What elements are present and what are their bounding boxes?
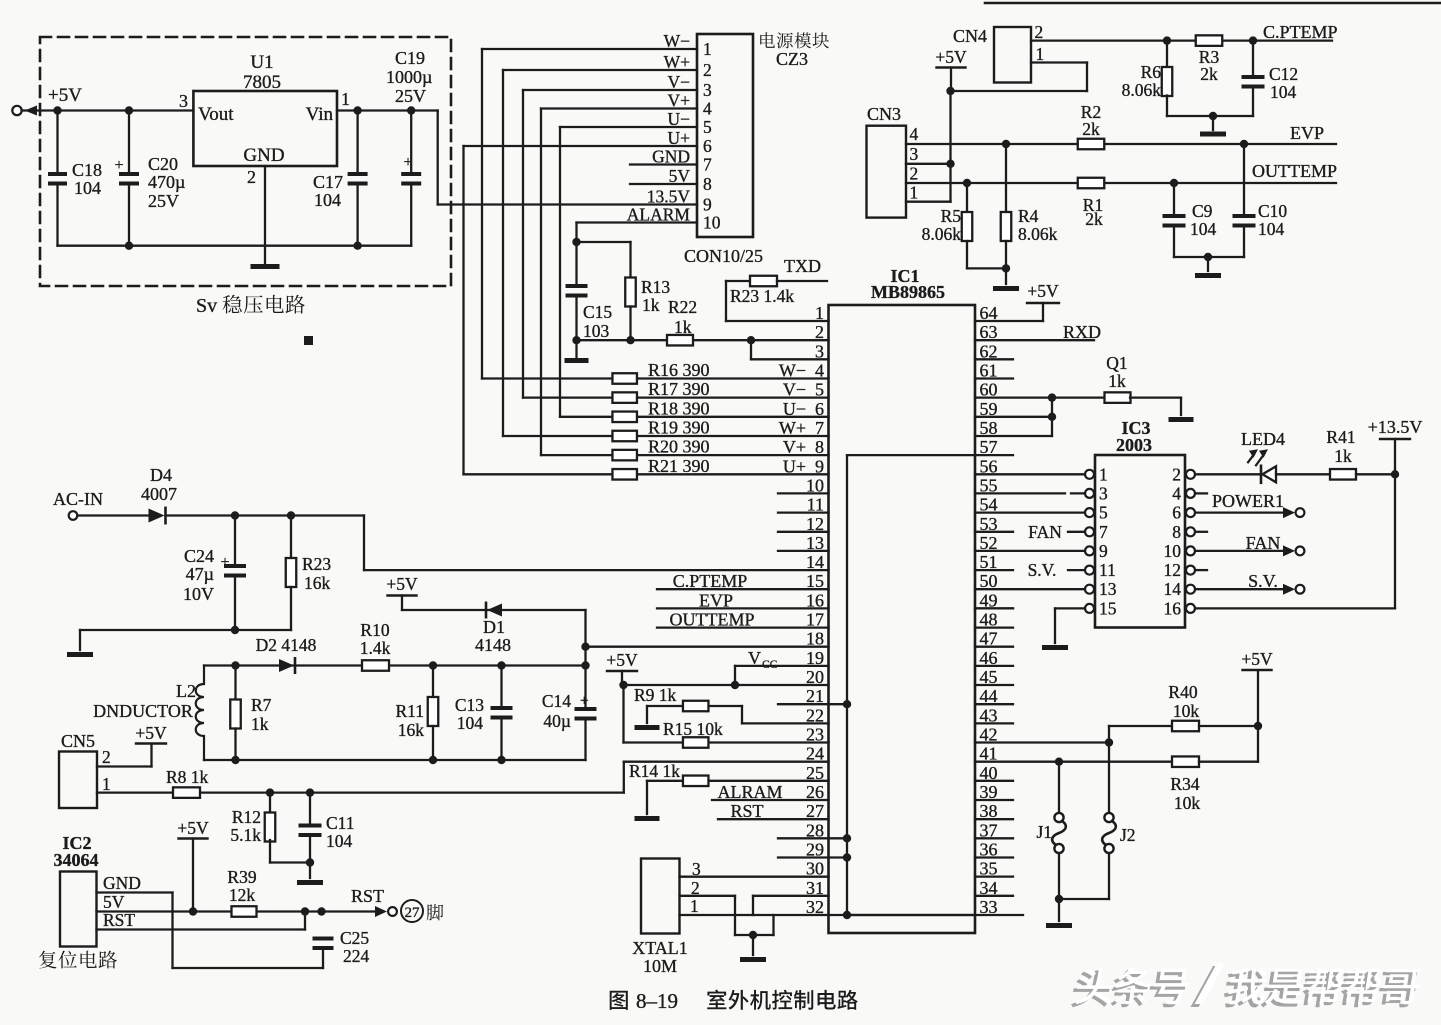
svg-text:5V: 5V [103,892,125,912]
svg-text:12k: 12k [229,885,256,905]
svg-text:R8 1k: R8 1k [166,767,209,787]
svg-text:1: 1 [1036,44,1045,64]
svg-text:5V: 5V [669,166,691,186]
svg-text:5.1k: 5.1k [230,825,261,845]
svg-text:C20: C20 [148,154,178,174]
svg-text:+: + [403,154,412,171]
svg-text:EVP: EVP [699,590,733,610]
svg-text:C24: C24 [184,546,214,566]
svg-text:13: 13 [1099,579,1117,599]
svg-text:S.V.: S.V. [1248,571,1278,591]
svg-text:1: 1 [102,774,111,794]
svg-text:R14 1k: R14 1k [629,761,680,781]
svg-text:R15 10k: R15 10k [663,719,723,739]
svg-text:C.PTEMP: C.PTEMP [1263,22,1338,42]
svg-text:W−: W− [664,31,691,51]
svg-text:R21 390: R21 390 [648,456,710,476]
svg-text:+5V: +5V [386,574,418,594]
svg-text:16: 16 [1164,598,1182,618]
svg-text:5: 5 [703,117,712,137]
svg-text:1: 1 [703,39,712,59]
svg-text:+: + [114,157,123,174]
svg-text:10k: 10k [1173,701,1200,721]
svg-text:RST: RST [103,910,135,930]
svg-text:34064: 34064 [54,850,99,870]
svg-text:4148: 4148 [475,635,511,655]
svg-text:4007: 4007 [141,484,177,504]
svg-text:U1: U1 [250,52,273,73]
svg-text:3: 3 [910,144,919,164]
svg-text:R7: R7 [251,695,272,715]
svg-text:104: 104 [1270,82,1297,102]
svg-text:C9: C9 [1192,201,1213,221]
svg-text:C10: C10 [1258,201,1287,221]
svg-text:V: V [748,648,761,668]
svg-text:3: 3 [1099,483,1108,503]
svg-text:104: 104 [1190,219,1217,239]
svg-text:C14: C14 [542,691,571,711]
svg-text:2k: 2k [1085,209,1103,229]
svg-text:7: 7 [703,155,712,175]
svg-text:TXD: TXD [784,256,821,276]
svg-text:8.06k: 8.06k [1018,224,1058,244]
svg-text:9: 9 [1099,541,1108,561]
svg-text:40µ: 40µ [543,711,571,731]
svg-text:J1: J1 [1036,822,1052,842]
svg-text:D4: D4 [150,465,172,485]
svg-text:10M: 10M [643,956,677,976]
svg-text:S.V.: S.V. [1028,560,1057,580]
svg-text:R10: R10 [360,620,389,640]
svg-text:104: 104 [326,831,353,851]
svg-text:2: 2 [910,164,919,184]
svg-text:3: 3 [179,91,188,111]
svg-text:C19: C19 [395,48,425,68]
svg-text:CN3: CN3 [867,104,901,124]
svg-text:+13.5V: +13.5V [1368,417,1423,437]
svg-text:8: 8 [703,174,712,194]
svg-text:OUTTEMP: OUTTEMP [1252,161,1337,181]
svg-text:GND: GND [652,147,690,167]
svg-text:CN5: CN5 [61,731,95,751]
svg-text:Vout: Vout [198,104,234,125]
svg-text:10: 10 [703,213,721,233]
svg-text:4: 4 [703,99,712,119]
svg-text:AC-IN: AC-IN [53,489,103,509]
svg-text:6: 6 [1172,503,1181,523]
svg-text:104: 104 [1258,219,1285,239]
svg-text:12: 12 [1164,560,1182,580]
svg-text:C25: C25 [340,928,369,948]
svg-text:C15: C15 [583,302,612,322]
svg-text:1k: 1k [642,295,660,315]
svg-text:1: 1 [815,303,824,323]
svg-text:CN4: CN4 [953,26,987,46]
svg-text:3: 3 [815,341,824,361]
svg-text:R34: R34 [1170,774,1199,794]
svg-text:C17: C17 [313,172,343,192]
svg-text:V−: V− [783,380,806,400]
svg-text:U−: U− [783,399,806,419]
svg-text:+5V: +5V [606,650,638,670]
svg-text:RST: RST [351,886,384,906]
svg-text:104: 104 [314,190,341,210]
svg-text:470µ: 470µ [148,172,185,192]
svg-text:1: 1 [690,896,699,916]
svg-text:C.PTEMP: C.PTEMP [673,571,748,591]
svg-text:RST: RST [730,801,763,821]
svg-text:2: 2 [1035,22,1044,42]
svg-text:+5V: +5V [935,47,967,67]
svg-text:10: 10 [1164,541,1182,561]
svg-text:104: 104 [74,178,101,198]
svg-text:2: 2 [1172,464,1181,484]
svg-text:4: 4 [910,124,919,144]
svg-text:R40: R40 [1168,682,1197,702]
svg-text:R4: R4 [1018,206,1039,226]
svg-text:1k: 1k [1108,371,1126,391]
svg-text:R12: R12 [232,807,261,827]
svg-text:D1: D1 [483,617,505,637]
svg-text:1.4k: 1.4k [360,638,391,658]
svg-text:8.06k: 8.06k [1122,80,1162,100]
svg-text:C13: C13 [455,695,484,715]
svg-text:Vin: Vin [306,104,334,125]
svg-text:CON10/25: CON10/25 [684,246,763,266]
svg-text:2: 2 [102,747,111,767]
svg-text:8.06k: 8.06k [922,224,962,244]
svg-text:U+: U+ [667,128,690,148]
svg-text:1: 1 [910,183,919,203]
svg-text:10V: 10V [183,584,214,604]
svg-text:D2 4148: D2 4148 [256,635,317,655]
svg-text:47µ: 47µ [186,564,214,584]
svg-text:+: + [220,554,229,571]
svg-text:V+: V+ [783,437,806,457]
svg-text:6: 6 [703,136,712,156]
svg-text:RXD: RXD [1063,322,1101,342]
svg-text:4: 4 [1172,483,1181,503]
svg-text:V+: V+ [667,91,690,111]
svg-text:9: 9 [703,195,712,215]
svg-text:U+: U+ [783,456,806,476]
svg-text:8–19: 8–19 [636,989,678,1013]
svg-text:R39: R39 [227,867,256,887]
svg-text:7805: 7805 [243,72,281,93]
svg-text:+5V: +5V [135,723,167,743]
svg-text:27: 27 [405,905,421,921]
svg-text:1k: 1k [1334,446,1352,466]
svg-text:+5V: +5V [177,818,209,838]
svg-text:R41: R41 [1326,427,1355,447]
svg-text:R22: R22 [668,297,697,317]
svg-text:2k: 2k [1200,64,1218,84]
svg-text:C12: C12 [1269,64,1298,84]
svg-text:J2: J2 [1120,825,1136,845]
svg-text:5: 5 [1099,503,1108,523]
svg-text:W−: W− [779,361,806,381]
svg-text:25V: 25V [395,86,426,106]
svg-text:V−: V− [667,72,690,92]
svg-text:OUTTEMP: OUTTEMP [670,610,755,630]
svg-text:13.5V: 13.5V [647,187,691,207]
svg-text:3: 3 [703,80,712,100]
svg-text:1: 1 [1099,464,1108,484]
svg-text:R23: R23 [302,554,331,574]
svg-text:Sv: Sv [196,295,217,317]
svg-text:8: 8 [1172,522,1181,542]
svg-text:R23 1.4k: R23 1.4k [730,286,794,306]
svg-text:+: + [580,693,588,709]
svg-text:2: 2 [247,167,256,187]
svg-text:EVP: EVP [1290,123,1324,143]
svg-text:LED4: LED4 [1241,429,1285,449]
svg-text:R20 390: R20 390 [648,437,710,457]
svg-text:11: 11 [1099,560,1116,580]
svg-text:R5: R5 [941,206,962,226]
svg-text:ALARM: ALARM [627,205,691,225]
svg-text:R13: R13 [641,277,670,297]
svg-text:+5V: +5V [48,85,82,106]
svg-text:1000µ: 1000µ [386,67,432,87]
svg-text:2: 2 [815,322,824,342]
svg-text:U−: U− [667,109,690,129]
svg-text:MB89865: MB89865 [871,282,945,302]
svg-text:FAN: FAN [1028,522,1062,542]
svg-text:ALRAM: ALRAM [717,782,782,802]
svg-text:16k: 16k [304,573,331,593]
svg-text:GND: GND [103,873,141,893]
svg-text:C18: C18 [72,160,102,180]
svg-text:R9 1k: R9 1k [634,685,677,705]
svg-text:W+: W+ [664,52,691,72]
svg-text:R18 390: R18 390 [648,398,710,418]
svg-text:R17 390: R17 390 [648,379,710,399]
svg-text:14: 14 [1164,579,1182,599]
svg-text:1: 1 [341,89,350,109]
svg-text:103: 103 [583,321,610,341]
svg-text:15: 15 [1099,598,1117,618]
svg-text:2k: 2k [1082,119,1100,139]
svg-text:2: 2 [703,60,712,80]
svg-text:R11: R11 [395,701,424,721]
svg-text:2003: 2003 [1116,435,1152,455]
svg-text:XTAL1: XTAL1 [632,938,688,958]
svg-text:R16 390: R16 390 [648,360,710,380]
svg-text:16k: 16k [398,720,425,740]
svg-text:CC: CC [762,659,778,671]
svg-text:GND: GND [243,145,284,166]
svg-text:R6: R6 [1141,62,1162,82]
svg-text:L2: L2 [176,681,196,701]
svg-text:DNDUCTOR: DNDUCTOR [93,701,193,721]
svg-text:1k: 1k [251,714,269,734]
svg-text:224: 224 [343,946,370,966]
svg-text:+5V: +5V [1027,281,1059,301]
svg-text:25V: 25V [148,191,179,211]
svg-text:10k: 10k [1174,793,1201,813]
svg-text:7: 7 [1099,522,1108,542]
svg-text:Q1: Q1 [1106,353,1127,373]
svg-text:C11: C11 [326,813,355,833]
svg-text:+5V: +5V [1241,649,1273,669]
svg-text:104: 104 [457,713,484,733]
svg-text:POWER1: POWER1 [1212,491,1284,511]
svg-text:R19 390: R19 390 [648,418,710,438]
svg-text:CZ3: CZ3 [776,49,808,69]
svg-text:W+: W+ [779,418,806,438]
